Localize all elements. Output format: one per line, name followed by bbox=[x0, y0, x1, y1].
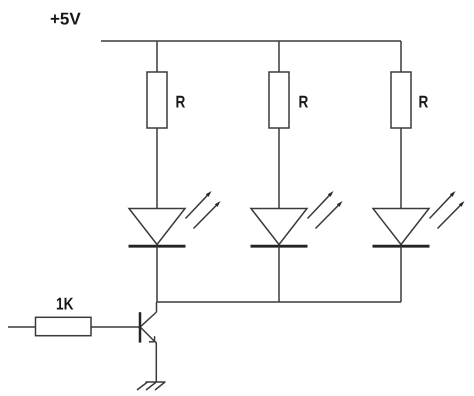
wire D2 to bottom rail bbox=[278, 246, 280, 302]
resistor R3 bbox=[391, 72, 411, 128]
wire rail to R2 bbox=[278, 41, 280, 72]
transistor Q1 bbox=[140, 302, 157, 344]
wire rail to R3 bbox=[400, 41, 402, 72]
wire +5V rail bbox=[101, 40, 401, 42]
wire R3 to D3 bbox=[400, 128, 402, 209]
ground bbox=[137, 382, 166, 390]
svg-text:R: R bbox=[176, 93, 186, 112]
wire bottom rail (cathode bus) bbox=[157, 301, 401, 303]
LED D2 bbox=[251, 191, 343, 246]
svg-text:R: R bbox=[299, 93, 309, 112]
LED D3 bbox=[373, 191, 465, 246]
wire input to R4 bbox=[8, 326, 36, 328]
resistor R2 bbox=[269, 72, 289, 128]
wire R4 to Q1 base bbox=[91, 326, 139, 328]
wire Q1 emitter to ground bbox=[155, 343, 157, 382]
wire D3 to bottom rail bbox=[400, 246, 402, 302]
wire R1 to D1 bbox=[156, 128, 158, 209]
svg-text:R: R bbox=[419, 93, 429, 112]
wire R2 to D2 bbox=[278, 128, 280, 209]
resistor R1 bbox=[147, 72, 167, 128]
wire D1 to bottom rail bbox=[156, 246, 158, 302]
svg-text:+5V: +5V bbox=[50, 10, 81, 29]
LED D1 bbox=[129, 191, 221, 246]
svg-text:1K: 1K bbox=[56, 295, 74, 314]
resistor R4 1K bbox=[36, 317, 92, 335]
wire rail to R1 bbox=[156, 41, 158, 72]
